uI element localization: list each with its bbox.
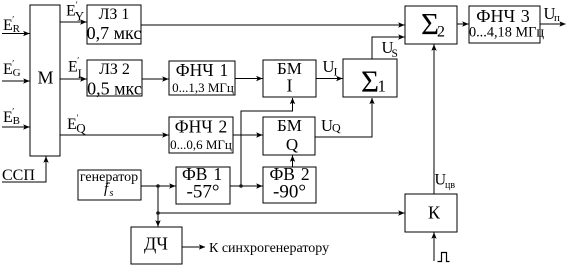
- block DCh: [131, 227, 182, 264]
- wire BM Q to Sigma1 bottom (UQ): [315, 98, 372, 137]
- wire LZ1 to Sigma2: [141, 24, 404, 26]
- block FNCh3: [469, 6, 540, 43]
- svg-text:0...4,18 МГц: 0...4,18 МГц: [469, 25, 544, 41]
- block BM I: [263, 60, 316, 97]
- svg-text:К: К: [428, 203, 441, 223]
- svg-text:R: R: [13, 23, 21, 35]
- junction dot generator branch: [156, 184, 160, 188]
- svg-text:I: I: [334, 65, 338, 79]
- wire DCh output: [182, 246, 205, 248]
- wire M to LZ1 (E'Y): [60, 21, 86, 23]
- svg-text:s: s: [110, 188, 114, 199]
- pulse symbol: [438, 253, 450, 262]
- wire M to FNCh2 (E'Q): [60, 134, 168, 136]
- wire E'B input: [2, 126, 29, 128]
- svg-text:ДЧ: ДЧ: [144, 234, 168, 254]
- svg-text:М: М: [37, 68, 53, 88]
- wire FNCh1 to BM I: [235, 78, 262, 80]
- block FNCh1: [169, 61, 235, 95]
- block Sigma2: [405, 6, 457, 44]
- wire generator to FV1: [141, 185, 175, 187]
- wire Sigma2 to FNCh3: [457, 23, 468, 25]
- block BM Q: [263, 117, 315, 155]
- svg-text:0...1,3 МГц: 0...1,3 МГц: [172, 80, 234, 95]
- wire M to LZ2 (E'I): [60, 78, 86, 80]
- svg-text:I: I: [78, 67, 82, 81]
- svg-text:I: I: [287, 76, 293, 96]
- svg-text:G: G: [13, 67, 21, 79]
- wire branch to K: [158, 212, 404, 214]
- wire FV2 to BM Q bottom: [292, 156, 294, 167]
- block K: [405, 194, 457, 232]
- svg-text:ФНЧ 2: ФНЧ 2: [175, 117, 227, 137]
- block FV2: [263, 167, 316, 203]
- label E'I: [68, 56, 82, 82]
- block FV1: [176, 167, 230, 204]
- label E'B: [3, 107, 20, 128]
- block M: [30, 5, 60, 156]
- svg-text:ССП: ССП: [2, 167, 35, 184]
- svg-text:0,5 мкс: 0,5 мкс: [87, 79, 142, 99]
- block LZ1: [87, 5, 141, 44]
- svg-text:Y: Y: [75, 9, 85, 24]
- label E'Q: [67, 113, 86, 136]
- block LZ2: [87, 60, 142, 96]
- svg-text:1: 1: [378, 77, 387, 96]
- wire FV1 to FV2: [230, 185, 262, 187]
- svg-text:Q: Q: [332, 121, 341, 135]
- svg-text:ЛЗ 2: ЛЗ 2: [99, 61, 130, 78]
- wire SSP to M: [2, 157, 46, 182]
- wire generator branch down: [157, 186, 159, 226]
- svg-text:Σ: Σ: [361, 64, 379, 99]
- wire K to Sigma2 bottom (Ucv): [433, 45, 435, 194]
- svg-text:генератор: генератор: [80, 170, 138, 185]
- wire FNCh2 to BM Q: [233, 134, 262, 136]
- svg-text:0,7 мкс: 0,7 мкс: [87, 23, 142, 43]
- svg-text:К синхрогенератору: К синхрогенератору: [209, 241, 329, 256]
- svg-text:Q: Q: [76, 121, 86, 136]
- wire pulse input to K: [433, 233, 435, 261]
- block generator: [78, 170, 141, 200]
- svg-text:цв: цв: [445, 180, 455, 191]
- svg-text:0...0,6 МГц: 0...0,6 МГц: [170, 137, 232, 152]
- wire BM I to Sigma1 (UI): [316, 78, 342, 80]
- junction dot FV1 branch: [239, 184, 243, 188]
- wire FNCh3 output (Up): [540, 23, 566, 25]
- junction dot branch to K: [156, 211, 160, 215]
- wire E'R input: [2, 33, 29, 35]
- svg-text:ЛЗ 1: ЛЗ 1: [99, 6, 130, 23]
- label E'Y: [66, 0, 85, 24]
- svg-text:ФНЧ 3: ФНЧ 3: [476, 6, 529, 26]
- svg-text:ФНЧ 1: ФНЧ 1: [176, 60, 228, 80]
- label E'R: [3, 15, 21, 36]
- block Sigma1: [343, 59, 397, 97]
- svg-text:B: B: [13, 115, 20, 127]
- label E'G: [3, 59, 21, 80]
- wire E'G input: [2, 80, 29, 82]
- wire LZ2 to FNCh1: [142, 78, 168, 80]
- svg-text:2: 2: [437, 24, 445, 41]
- svg-text:п: п: [554, 12, 560, 24]
- wire Sigma1 to Sigma2 (US): [372, 37, 404, 59]
- svg-text:′: ′: [77, 56, 79, 66]
- svg-text:S: S: [392, 48, 398, 60]
- svg-text:БМ: БМ: [277, 116, 302, 135]
- svg-text:Q: Q: [286, 135, 298, 154]
- svg-text:-57°: -57°: [187, 182, 220, 203]
- svg-text:-90°: -90°: [273, 182, 306, 203]
- block FNCh2: [169, 117, 233, 153]
- wire FV1 branch to BM I bottom: [241, 98, 293, 186]
